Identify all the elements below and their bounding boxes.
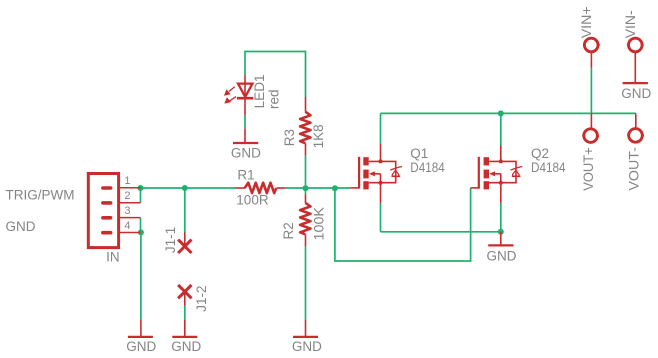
label VOUT- [627,147,642,191]
pad VIN+ [583,38,600,68]
pad VIN- [627,38,644,83]
junction R2 R3 node [303,185,309,191]
svg-text:3: 3 [124,205,130,217]
resistor R1 [235,183,285,193]
wire R2 bottom to GND [305,246,307,320]
svg-text:4: 4 [124,220,130,232]
svg-text:GND: GND [231,146,261,161]
svg-text:1K8: 1K8 [311,124,326,148]
svg-text:J1-2: J1-2 [194,285,209,311]
label LED1 [252,74,267,108]
svg-text:J1-1: J1-1 [163,227,178,253]
pad VOUT+ [582,113,599,142]
wire R2 top stub [305,188,307,195]
wire LED1 cathode to GND [244,115,246,128]
net label TRIG/PWM [6,187,75,202]
svg-text:1: 1 [124,175,130,187]
ground bottom left pin4 [128,320,153,337]
svg-text:R2: R2 [281,222,296,239]
label VOUT+ [581,147,596,191]
svg-text:LED1: LED1 [252,74,267,108]
svg-text:100R: 100R [236,192,269,207]
wire branch to J1-1 [184,188,186,233]
svg-text:IN: IN [106,249,120,264]
wire VIN+ down [590,68,592,114]
value D4184 Q2 [531,160,566,175]
label GND bottom J1-2 [171,339,201,354]
junction source GND node [498,229,504,235]
wire J1-2 down to GND [184,306,186,321]
jumper pad J1-2 [178,285,191,306]
svg-text:VIN+: VIN+ [579,6,594,38]
label Q1 [410,146,428,161]
transistor Q2 [471,146,523,204]
junction J1-1 branch node [182,185,188,191]
label Q2 [531,146,549,161]
label GND bottom left [126,339,156,354]
label J1-1 [163,227,178,253]
label R2 [281,222,296,239]
junction gate branch node [332,185,338,191]
transistor Q1 [350,144,402,203]
svg-text:GND: GND [621,86,651,101]
junction pin1 node [138,185,144,191]
svg-text:VOUT+: VOUT+ [581,147,596,191]
svg-text:D4184: D4184 [410,160,445,175]
ground under LED1 [233,128,258,143]
wire connector pin4 down to GND [140,232,142,320]
pin number 2 [124,190,130,202]
svg-text:Q1: Q1 [410,146,428,161]
label IN [106,249,120,264]
LED D1 LED1 [225,75,253,115]
junction Q2 drain node [498,110,504,116]
label GND bottom R2 [292,339,322,354]
label VIN- [623,10,638,38]
wire LED1 anode to R3 top loop [245,52,306,98]
wire net TRIG/PWM from connector pin 1 to R1 [141,187,236,189]
wire Q2 drain up [500,113,502,145]
svg-text:Q2: Q2 [531,146,549,161]
svg-text:R3: R3 [282,129,297,146]
value 1K8 [311,124,326,148]
label J1-2 [194,285,209,311]
wire Q2 source down [500,203,502,232]
label GND under sources [487,248,517,263]
label R1 [237,167,254,182]
label GND under LED1 [231,146,261,161]
wire connector pin3 to pin4 [140,218,142,233]
svg-text:GND: GND [171,339,201,354]
svg-text:2: 2 [124,190,130,202]
wire Q1 drain up [380,113,382,144]
ground bottom J1-2 [172,320,197,337]
resistor R3 [300,97,310,156]
svg-text:VOUT-: VOUT- [627,147,642,191]
svg-text:red: red [266,89,281,109]
wire top rail to VOUT [381,112,636,114]
net label GND [6,219,36,234]
pin number 4 [124,220,130,232]
wire Q1 source to Q2 source [381,231,501,233]
wire R3 bottom to node [305,156,307,188]
label R3 [282,129,297,146]
wire Q1 source down [380,203,382,232]
label GND under VIN- [621,86,651,101]
label VIN+ [579,6,594,38]
svg-text:VIN-: VIN- [623,10,638,38]
junction pin4 node [138,229,144,235]
svg-text:100K: 100K [312,207,327,241]
svg-text:GND: GND [292,339,322,354]
pin number 3 [124,205,130,217]
svg-text:GND: GND [6,219,36,234]
ground under Q1 Q2 sources [488,232,513,246]
resistor R2 [300,195,310,247]
svg-text:D4184: D4184 [531,160,566,175]
value D4184 Q1 [410,160,445,175]
wire gate link Q1 to Q2 [335,188,471,261]
value 100R [236,192,269,207]
value red [266,89,281,109]
svg-text:GND: GND [487,248,517,263]
wire connector pin1 to pin2 [140,188,142,203]
pad VOUT- [627,113,644,142]
value 100K [312,207,327,241]
jumper pad J1-1 [178,233,191,254]
pin number 1 [124,175,130,187]
svg-text:R1: R1 [237,167,254,182]
ground bottom R2 [293,320,318,337]
svg-text:GND: GND [126,339,156,354]
wire R1 to Q1 gate [285,187,350,189]
svg-text:TRIG/PWM: TRIG/PWM [6,187,75,202]
connector J IN [88,174,140,248]
ground under VIN- [623,82,648,84]
